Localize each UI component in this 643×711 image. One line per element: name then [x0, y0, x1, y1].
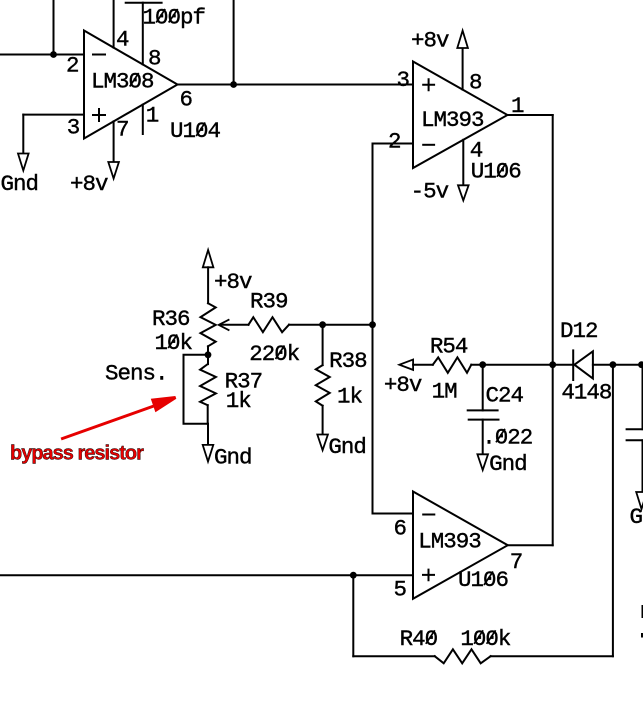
wire D12 cathode	[553, 364, 574, 366]
wire right edge capacitor top lead	[642, 365, 643, 430]
resistor R39 220k	[249, 317, 290, 332]
resistor R40 100k	[435, 649, 491, 663]
U106 plus input mark	[423, 79, 434, 90]
svg-text:1k: 1k	[337, 384, 363, 410]
svg-text:100pf: 100pf	[143, 5, 206, 31]
ground arrow right edge	[636, 492, 643, 509]
partial text right edge top	[642, 605, 643, 618]
wire top-left vertical	[53, 0, 55, 55]
wire R37 bottom lead	[207, 405, 209, 424]
U106 bottom plus input mark	[423, 570, 434, 581]
svg-text:LM393: LM393	[421, 107, 484, 133]
svg-text:+8v: +8v	[411, 28, 449, 54]
svg-text:4: 4	[116, 27, 129, 53]
svg-text:8: 8	[469, 70, 482, 96]
svg-text:R38: R38	[329, 348, 367, 374]
wire U106 pin6 input	[373, 513, 414, 515]
svg-text:R40: R40	[400, 626, 438, 652]
wire output to top	[233, 0, 235, 85]
node junction R36/R37	[205, 351, 212, 358]
wire output vertical net	[552, 115, 554, 545]
wire R37 to ground	[207, 424, 209, 445]
wire U104 output	[178, 84, 414, 86]
power -5v arrow U106 pin4	[458, 185, 469, 200]
svg-text:+8v: +8v	[384, 372, 422, 398]
potentiometer R36 10k	[201, 303, 216, 346]
red annotation arrow	[63, 398, 176, 439]
wire U106 pin7 output	[508, 544, 553, 546]
resistor R37 1k	[200, 364, 216, 405]
wire R37 top lead	[207, 355, 209, 364]
U104 pin 8 wire	[142, 3, 144, 65]
wire C24 top lead	[482, 365, 484, 411]
svg-text:3: 3	[67, 115, 80, 141]
svg-text:100k: 100k	[460, 626, 511, 652]
svg-text:Gnd: Gnd	[328, 434, 366, 460]
op-amp U104 LM308 triangle	[84, 31, 178, 139]
wire U104 pin2 input	[0, 54, 84, 56]
svg-text:Gnd: Gnd	[489, 451, 527, 477]
node junction right edge	[638, 361, 643, 368]
comparator U106 LM393 bottom triangle	[413, 492, 508, 599]
node junction C24 top	[479, 361, 486, 368]
svg-text:6: 6	[394, 516, 407, 542]
svg-text:LM308: LM308	[91, 69, 154, 95]
wire R38 top lead	[322, 325, 324, 365]
wire left vertical net	[372, 144, 374, 514]
U104 pin 1 wire	[142, 105, 144, 134]
slashed-zero marks	[130, 9, 506, 644]
wire R40 right lead	[491, 655, 613, 657]
svg-text:7: 7	[116, 117, 129, 143]
node junction pin5/R40	[350, 572, 357, 579]
U106 bottom minus input mark	[423, 514, 434, 516]
wire R40 right vertical	[612, 365, 614, 657]
comparator U106 LM393 top triangle	[413, 62, 508, 169]
U104 pin 4 wire	[113, 0, 115, 48]
svg-text:Gnd: Gnd	[1, 171, 39, 197]
diode D12 4148	[573, 350, 593, 380]
svg-text:U106: U106	[458, 567, 509, 593]
wire right edge capacitor bottom lead	[642, 440, 643, 492]
power +8v arrow U104 pin7	[108, 162, 119, 179]
ground arrow U104	[18, 154, 29, 171]
wire R39 to node	[289, 324, 373, 326]
svg-text:2: 2	[66, 53, 79, 79]
svg-text:10k: 10k	[155, 330, 193, 356]
svg-text:1M: 1M	[432, 379, 458, 405]
svg-text:220k: 220k	[249, 341, 300, 367]
svg-text:1: 1	[511, 93, 524, 119]
wire U106 pin2 input	[373, 143, 414, 145]
wire R54 left lead	[413, 364, 433, 366]
node junction output net at D12	[549, 361, 556, 368]
svg-text:D12: D12	[560, 318, 598, 344]
wire R36 top lead	[207, 267, 209, 303]
svg-text:+8v: +8v	[70, 171, 108, 197]
svg-text:2: 2	[388, 129, 401, 155]
resistor R38 1k	[316, 365, 330, 406]
node junction R40 net	[610, 361, 617, 368]
capacitor right edge	[627, 429, 643, 440]
svg-text:1k: 1k	[226, 388, 252, 414]
capacitor C24 .022	[468, 410, 499, 419]
U106 minus input mark	[423, 144, 434, 146]
svg-text:4148: 4148	[561, 380, 612, 406]
svg-text:+8v: +8v	[214, 269, 252, 295]
svg-text:C24: C24	[486, 383, 524, 409]
svg-text:3: 3	[397, 67, 410, 93]
wire to ground U104 pin3	[22, 115, 24, 154]
resistor R54 1M	[433, 357, 472, 372]
U104 plus input mark	[93, 109, 105, 121]
svg-text:bypass resistor: bypass resistor	[10, 443, 144, 465]
svg-text:5: 5	[394, 577, 407, 603]
U106 pin 4 wire	[462, 140, 464, 186]
wire U106 pin1 output	[508, 114, 553, 116]
node junction at pin2 wire	[50, 51, 57, 58]
wire R40 left vertical	[352, 575, 354, 656]
svg-text:1: 1	[146, 103, 159, 129]
svg-text:U104: U104	[170, 118, 221, 144]
wire U106 pin5 input	[0, 574, 413, 576]
svg-text:R39: R39	[250, 289, 288, 315]
svg-text:-5v: -5v	[411, 179, 449, 205]
capacitor 100pf plate	[126, 2, 162, 4]
svg-text:R54: R54	[430, 333, 468, 359]
U104 minus input mark	[93, 54, 105, 56]
power +8v arrow U106 pin8	[457, 31, 468, 48]
svg-text:.022: .022	[482, 424, 532, 450]
svg-text:7: 7	[510, 549, 523, 575]
wire R38 bottom lead	[322, 406, 324, 435]
U106 pin 8 wire	[462, 48, 464, 90]
wire wiper to R39	[220, 324, 249, 326]
svg-text:Gnd: Gnd	[214, 445, 252, 471]
partial text right edge bottom	[641, 633, 643, 638]
wire R36 bottom lead	[207, 346, 209, 355]
power +8v arrow R54	[399, 360, 413, 370]
U104 pin 7 wire	[113, 121, 115, 162]
wire U104 pin3 input	[23, 114, 84, 116]
svg-text:6: 6	[180, 87, 193, 113]
node junction R38 top	[319, 321, 326, 328]
R36 wiper arrow	[219, 320, 229, 330]
node junction left net	[369, 321, 376, 328]
ground arrow R38	[317, 435, 328, 451]
svg-text:G: G	[630, 504, 643, 530]
wire R40 left lead	[353, 655, 434, 657]
power +8v arrow R36 top	[203, 250, 214, 267]
svg-text:LM393: LM393	[418, 529, 481, 555]
wire bypass loop	[184, 355, 209, 424]
wire D12 anode to right	[593, 364, 643, 366]
svg-text:U106: U106	[471, 159, 522, 185]
ground arrow R37	[203, 445, 214, 462]
svg-text:R36: R36	[152, 306, 190, 332]
node junction on output	[230, 81, 237, 88]
ground arrow C24	[477, 454, 488, 470]
wire C24 bottom lead	[482, 420, 484, 455]
svg-text:Sens.: Sens.	[105, 361, 168, 387]
wire R54 to D12	[471, 364, 552, 366]
